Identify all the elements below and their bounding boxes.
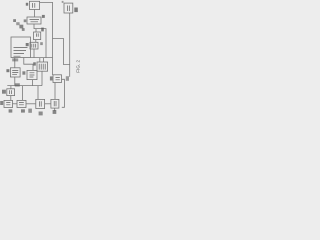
label left-top of B bbox=[62, 1, 64, 3]
block 68 large left bbox=[11, 37, 31, 58]
wire bbox=[43, 58, 45, 62]
wire bbox=[14, 58, 16, 68]
label below b4 bbox=[53, 110, 57, 114]
content block 66 stripes bbox=[32, 44, 36, 48]
block 70 striped bbox=[37, 62, 48, 71]
wire bbox=[34, 10, 36, 18]
label 84 left bbox=[0, 101, 3, 105]
label below b1 bbox=[9, 109, 13, 112]
content block 80 bbox=[56, 78, 60, 80]
wire bbox=[34, 24, 46, 58]
label leader 54 bbox=[13, 19, 16, 22]
wire bbox=[45, 103, 51, 105]
block 80 bbox=[53, 75, 62, 83]
label below b2 bbox=[21, 109, 25, 112]
block 76 bbox=[27, 70, 37, 79]
wire bbox=[69, 13, 71, 77]
label 12 bbox=[74, 8, 78, 13]
block 66 hatched bbox=[30, 42, 38, 49]
label below-left b3 bbox=[28, 109, 32, 113]
block 56 top-left bbox=[30, 1, 40, 9]
block 88 bbox=[36, 99, 45, 108]
label 52 bbox=[22, 28, 25, 31]
label 80 right bbox=[66, 76, 69, 81]
block 62 bbox=[34, 32, 41, 40]
block 84 bbox=[4, 100, 13, 107]
content block 68 text bbox=[14, 48, 28, 57]
label 80 left bbox=[50, 76, 53, 80]
wire bbox=[7, 85, 42, 87]
wire bbox=[54, 108, 56, 111]
label 56 bbox=[26, 3, 28, 6]
content block 70 stripes bbox=[39, 64, 45, 70]
block 86 bbox=[17, 100, 26, 107]
label 64 bbox=[41, 28, 44, 32]
block 12 top-right bbox=[64, 3, 73, 13]
wire bbox=[53, 39, 70, 65]
wire bbox=[39, 58, 41, 62]
content block 82 bbox=[9, 90, 11, 94]
block 96 bbox=[51, 99, 59, 108]
label 76 bbox=[22, 71, 25, 74]
wire bbox=[10, 86, 12, 89]
label 82 bbox=[2, 90, 6, 94]
label 74 bbox=[6, 69, 9, 72]
wire bbox=[37, 86, 39, 100]
wire bbox=[31, 57, 53, 59]
wire bbox=[14, 77, 16, 86]
label 70 bbox=[33, 62, 36, 65]
content block 74 bbox=[12, 71, 18, 75]
wire bbox=[54, 83, 56, 100]
wire bbox=[24, 58, 33, 71]
content block 62 bbox=[36, 33, 38, 36]
content block 58 bbox=[30, 20, 40, 22]
wire bbox=[22, 86, 24, 101]
wire bbox=[33, 49, 35, 58]
wire bbox=[26, 103, 35, 105]
wire bbox=[62, 79, 65, 107]
content block 84 bbox=[6, 103, 10, 105]
wire bbox=[41, 71, 43, 85]
leader curve bbox=[16, 22, 19, 25]
label 68 below big box bbox=[12, 58, 18, 61]
label 60 bbox=[42, 15, 45, 18]
svg-text:FIG. 2: FIG. 2 bbox=[75, 59, 80, 72]
wire bbox=[35, 29, 37, 32]
wire bbox=[10, 96, 12, 101]
wire bbox=[35, 40, 37, 43]
block 74 bbox=[10, 68, 20, 77]
label next to block 58 bbox=[24, 19, 27, 22]
wire bbox=[32, 80, 34, 86]
content block 56 bbox=[33, 3, 35, 8]
block 82 bbox=[7, 89, 15, 96]
label below b3 bbox=[39, 112, 43, 116]
label above S bbox=[15, 83, 20, 86]
content block 96 bbox=[54, 101, 56, 106]
content block 86 bbox=[19, 103, 24, 105]
wire bbox=[40, 2, 53, 75]
content block 76 bbox=[30, 73, 35, 77]
content block 12 bbox=[68, 6, 70, 12]
label 66 bbox=[26, 43, 29, 46]
label 58 bbox=[19, 25, 23, 29]
label tick right of 66 bbox=[40, 42, 43, 45]
block 58 bbox=[27, 17, 41, 24]
content block 88 bbox=[39, 101, 41, 106]
wire bbox=[13, 103, 18, 105]
